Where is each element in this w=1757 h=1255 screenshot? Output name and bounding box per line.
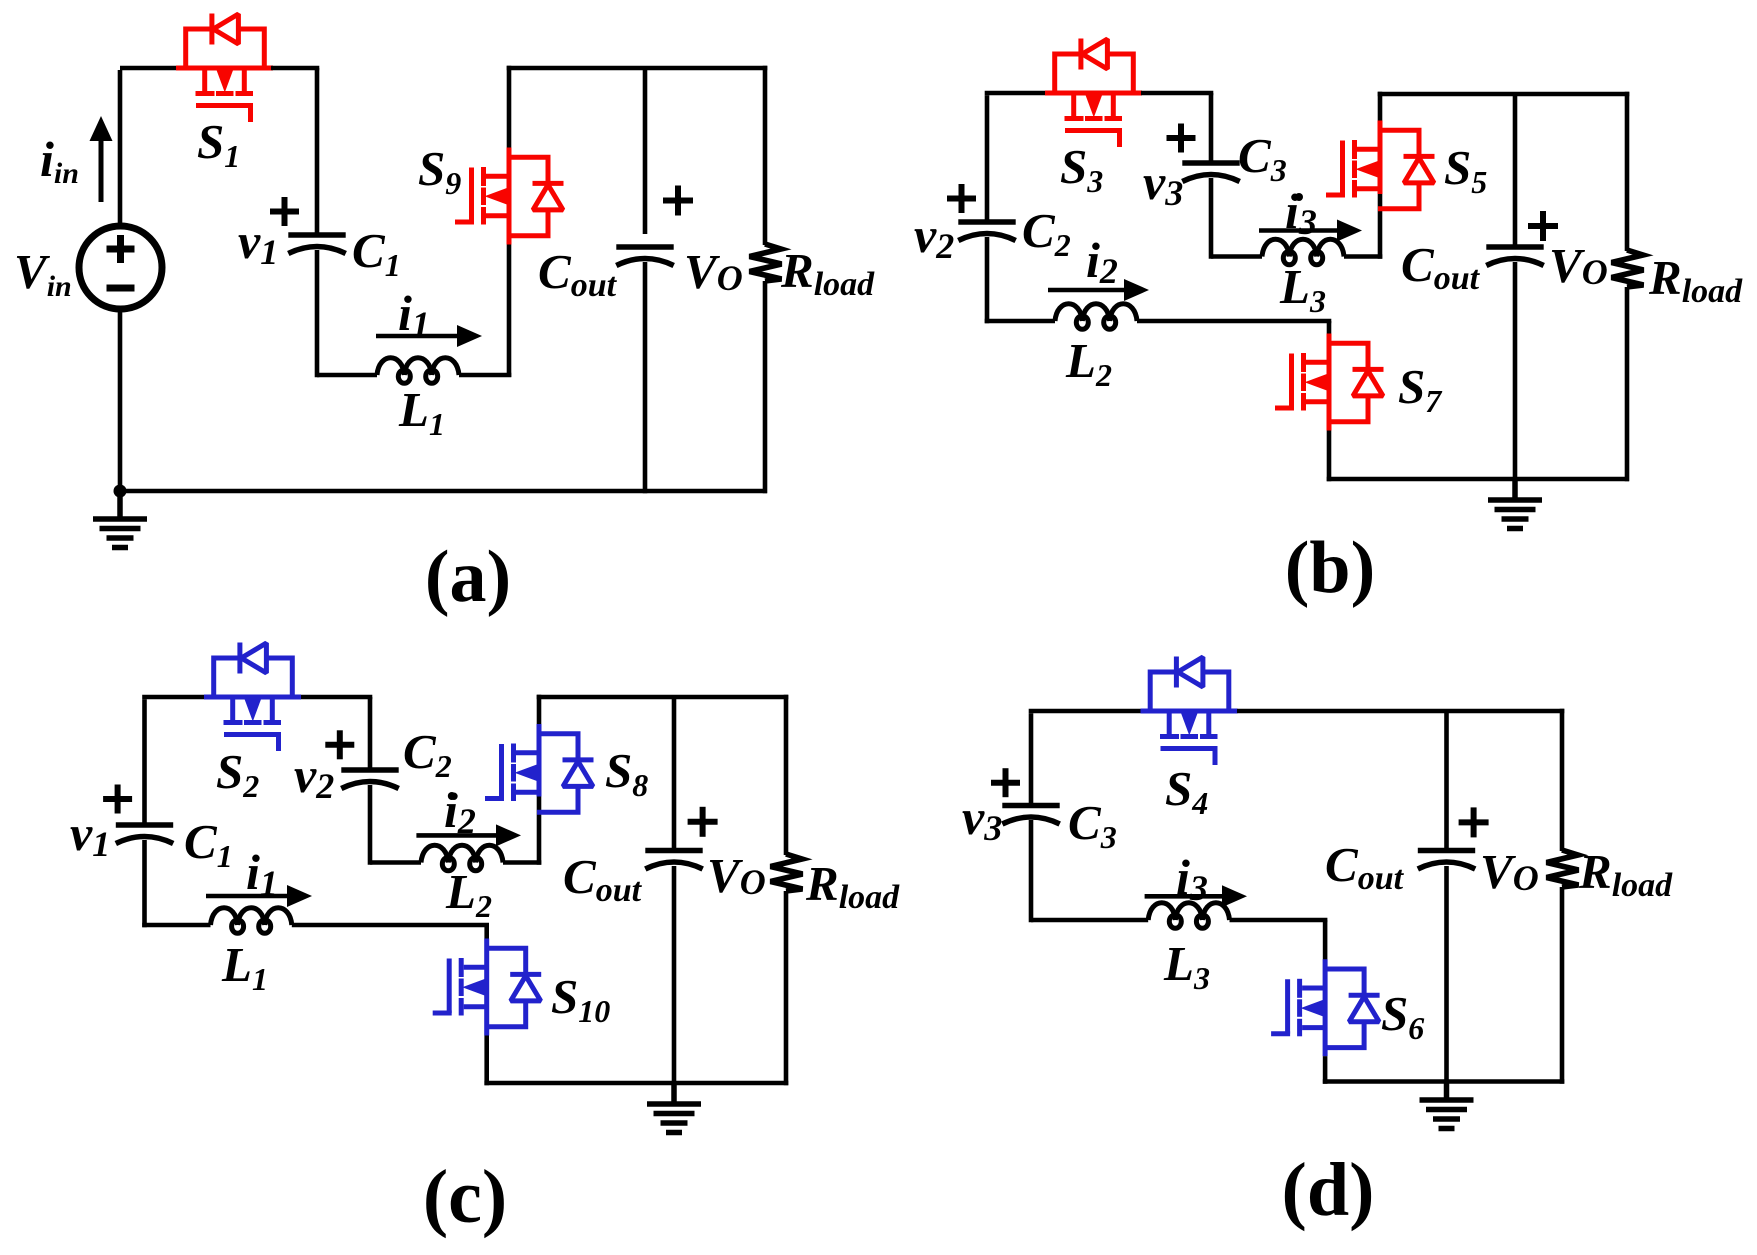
transistor S10 (MOSFET with body diode) xyxy=(433,939,542,1036)
transistor S6 (MOSFET with body diode) xyxy=(1271,959,1380,1056)
wire xyxy=(142,699,147,826)
wire xyxy=(1513,94,1518,248)
svg-text:S4: S4 xyxy=(1165,761,1208,821)
ground xyxy=(647,1083,701,1133)
current arrow i3 xyxy=(1259,220,1362,242)
capacitor Cout b xyxy=(1486,247,1543,266)
wire xyxy=(503,860,541,865)
wire xyxy=(1211,254,1262,259)
capacitor Cout d xyxy=(1418,851,1475,870)
svg-text:v3: v3 xyxy=(1143,154,1183,213)
svg-text:S6: S6 xyxy=(1381,986,1424,1046)
wire xyxy=(1378,194,1383,259)
wire xyxy=(985,95,990,220)
wire xyxy=(315,68,320,233)
ground xyxy=(1488,479,1542,529)
capacitor Cout c xyxy=(645,851,702,870)
wire xyxy=(120,66,178,71)
svg-text:VO: VO xyxy=(684,244,743,299)
capacitor Cout xyxy=(616,247,673,266)
svg-text:Vin: Vin xyxy=(14,244,72,303)
current arrow i2 xyxy=(1048,279,1149,301)
wire xyxy=(368,697,373,768)
svg-text:i2: i2 xyxy=(444,782,476,841)
svg-text:i3: i3 xyxy=(1285,183,1317,242)
wire xyxy=(784,891,789,1085)
svg-text:C2: C2 xyxy=(403,724,452,784)
wire xyxy=(537,695,789,700)
resistor Rload xyxy=(750,244,782,281)
wire xyxy=(1378,92,1630,97)
wire xyxy=(1323,1056,1328,1084)
svg-text:(c): (c) xyxy=(423,1155,507,1239)
wire xyxy=(118,308,123,491)
wire xyxy=(1237,709,1564,714)
wire xyxy=(1031,918,1148,923)
wire xyxy=(643,262,648,493)
plus v3 d xyxy=(991,768,1020,797)
wire xyxy=(1327,477,1629,482)
wire xyxy=(1513,262,1518,479)
resistor Rload c xyxy=(771,854,803,891)
svg-text:Cout: Cout xyxy=(1325,837,1405,897)
capacitor C2 c xyxy=(341,770,398,789)
wire xyxy=(484,925,489,939)
current arrow i1 xyxy=(376,325,482,347)
wire xyxy=(784,695,789,855)
wire xyxy=(763,66,768,245)
wire xyxy=(317,373,377,378)
capacitor C3 xyxy=(1182,163,1239,182)
wire xyxy=(1625,287,1630,481)
svg-text:L2: L2 xyxy=(1065,333,1112,393)
svg-text:v1: v1 xyxy=(238,213,278,272)
current arrow i1 c xyxy=(206,885,312,907)
capacitor C1 c xyxy=(116,825,173,844)
current arrow iin xyxy=(90,116,113,202)
svg-text:v1: v1 xyxy=(70,805,110,864)
transistor S5 (MOSFET with body diode) xyxy=(1326,121,1435,209)
inductor L3 xyxy=(1262,239,1344,265)
wire xyxy=(1444,711,1449,852)
wire xyxy=(315,250,320,377)
svg-text:S5: S5 xyxy=(1444,140,1487,200)
svg-text:L3: L3 xyxy=(1279,259,1326,319)
wire xyxy=(1560,887,1565,1084)
svg-text:S2: S2 xyxy=(216,744,259,804)
svg-text:L2: L2 xyxy=(445,864,492,924)
transistor S4 (MOSFET with body diode) xyxy=(1141,657,1238,766)
svg-text:Rload: Rload xyxy=(805,856,900,916)
wire xyxy=(142,695,204,700)
wire xyxy=(1378,92,1383,121)
svg-text:Cout: Cout xyxy=(563,849,643,909)
wire xyxy=(1344,254,1382,259)
svg-text:S9: S9 xyxy=(418,141,461,201)
plus v1 c xyxy=(103,785,132,814)
transistor S3 (MOSFET with body diode) xyxy=(1045,39,1142,148)
wire xyxy=(459,373,511,378)
svg-text:v3: v3 xyxy=(962,789,1002,848)
period dot after C2 xyxy=(448,792,456,800)
svg-text:S10: S10 xyxy=(551,969,610,1029)
wire xyxy=(484,1081,788,1086)
svg-text:C2: C2 xyxy=(1022,203,1071,263)
wire xyxy=(985,91,1046,96)
transistor S2 (MOSFET with body diode) xyxy=(204,643,301,752)
transistor S8 (MOSFET with body diode) xyxy=(485,724,594,812)
wire xyxy=(763,281,768,493)
svg-text:S7: S7 xyxy=(1398,359,1443,419)
plus Vo xyxy=(663,186,693,216)
svg-text:i1: i1 xyxy=(246,844,278,903)
plus v1 xyxy=(270,197,299,226)
wire xyxy=(142,840,147,927)
plus Vo c xyxy=(688,807,718,837)
inductor L3 d xyxy=(1148,903,1229,929)
svg-text:VO: VO xyxy=(1549,238,1608,293)
capacitor C2 xyxy=(958,222,1015,241)
svg-text:L1: L1 xyxy=(221,937,268,997)
voltage source Vin xyxy=(79,226,162,309)
wire xyxy=(1209,178,1214,259)
svg-text:C1: C1 xyxy=(184,814,233,874)
plus Vo b xyxy=(1528,211,1558,241)
svg-text:iin: iin xyxy=(40,131,79,190)
ground xyxy=(1420,1082,1474,1129)
svg-text:L1: L1 xyxy=(398,382,445,442)
wire xyxy=(1137,319,1331,324)
svg-text:Cout: Cout xyxy=(1401,237,1481,297)
plus v2 c xyxy=(325,730,354,759)
capacitor C3 d xyxy=(1002,806,1059,825)
wire xyxy=(142,923,210,928)
svg-text:C3: C3 xyxy=(1068,795,1117,855)
wire xyxy=(537,797,542,865)
svg-text:S8: S8 xyxy=(605,743,648,803)
svg-text:(b): (b) xyxy=(1285,527,1375,609)
svg-text:C3: C3 xyxy=(1238,128,1287,188)
capacitor C1 xyxy=(288,235,345,254)
inductor L2 c xyxy=(421,845,503,871)
junction node xyxy=(114,485,127,498)
wire xyxy=(507,244,512,377)
inductor L1 c xyxy=(211,908,292,934)
svg-text:Rload: Rload xyxy=(1648,250,1743,310)
svg-text:v2: v2 xyxy=(294,747,334,806)
svg-text:(a): (a) xyxy=(425,536,511,618)
svg-text:i3: i3 xyxy=(1176,849,1208,908)
wire xyxy=(301,695,372,700)
svg-text:S1: S1 xyxy=(197,114,240,174)
svg-text:S3: S3 xyxy=(1060,139,1103,199)
svg-text:i2: i2 xyxy=(1086,232,1118,291)
svg-text:VO: VO xyxy=(1480,844,1539,899)
wire xyxy=(1230,918,1328,923)
wire xyxy=(537,695,542,724)
wire xyxy=(1029,820,1034,922)
wire xyxy=(1323,920,1328,960)
wire xyxy=(368,785,373,865)
svg-text:v2: v2 xyxy=(914,207,954,266)
transistor S9 (MOSFET with body diode) xyxy=(455,148,564,245)
transistor S7 (MOSFET with body diode) xyxy=(1275,334,1384,431)
wire xyxy=(370,860,421,865)
wire xyxy=(1029,709,1141,714)
wire xyxy=(1444,866,1449,1084)
wire xyxy=(985,237,990,323)
svg-text:Rload: Rload xyxy=(780,243,875,303)
wire xyxy=(1560,709,1565,851)
wire xyxy=(1323,1079,1565,1084)
transistor S1 (MOSFET with body diode) xyxy=(176,14,273,123)
wire xyxy=(985,319,1055,324)
wire xyxy=(672,697,677,852)
wire xyxy=(643,68,648,234)
svg-text:Rload: Rload xyxy=(1578,844,1673,904)
wire xyxy=(484,1036,489,1086)
inductor L2 xyxy=(1055,304,1137,330)
wire xyxy=(118,489,767,494)
inductor L1 xyxy=(377,358,459,384)
current arrow i3 d xyxy=(1145,885,1247,907)
svg-text:(d): (d) xyxy=(1282,1148,1375,1232)
wire xyxy=(1327,431,1332,482)
wire xyxy=(1209,93,1214,161)
period dot after C3 xyxy=(1295,193,1303,201)
wire xyxy=(1141,91,1213,96)
svg-text:VO: VO xyxy=(707,848,766,903)
svg-text:i1: i1 xyxy=(398,285,430,344)
resistor Rload d xyxy=(1547,850,1579,887)
wire xyxy=(1327,321,1332,334)
wire xyxy=(507,66,768,71)
current arrow i2 c xyxy=(416,824,521,846)
svg-text:C1: C1 xyxy=(352,223,401,283)
wire xyxy=(1029,713,1034,806)
svg-text:Cout: Cout xyxy=(538,244,618,304)
wire xyxy=(118,70,123,228)
wire xyxy=(271,66,319,71)
wire xyxy=(292,923,489,928)
plus v3 xyxy=(1167,124,1196,153)
ground xyxy=(93,491,147,548)
wire xyxy=(672,866,677,1085)
wire xyxy=(507,66,512,148)
resistor Rload b xyxy=(1612,250,1644,287)
plus Vo d xyxy=(1459,807,1489,837)
svg-text:L3: L3 xyxy=(1163,936,1210,996)
plus v2 xyxy=(947,184,976,213)
wire xyxy=(1625,92,1630,251)
